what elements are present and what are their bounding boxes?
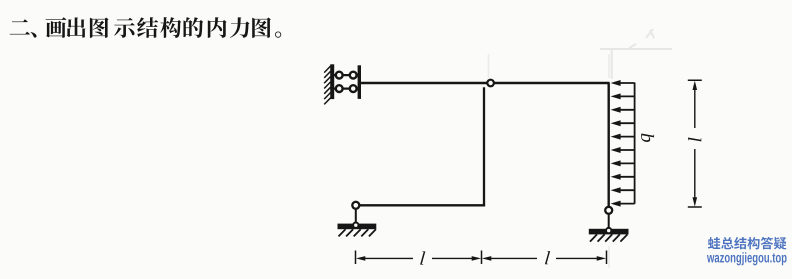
- support: bottom-right link support with hinges: [589, 207, 629, 242]
- distributed load q on right column: [611, 80, 635, 207]
- dimension: right vertical l: [688, 80, 702, 207]
- member: lower beam to left roller support: [356, 204, 485, 206]
- dimension label l (bottom right span): [545, 251, 550, 264]
- dimension: bottom spans l + l: [356, 251, 607, 265]
- dimension label l (right, rotated): [688, 138, 701, 142]
- scan artifacts (faint ghosting): [489, 29, 673, 268]
- member: right column: [608, 83, 610, 207]
- title: 二、画出图示结构的内力图。: [10, 17, 282, 38]
- support: left sliding (double-roller) support: [324, 64, 361, 104]
- dimension label l (bottom left span): [420, 251, 425, 264]
- member: top beam AB: [361, 82, 610, 84]
- load label q (rotated): [641, 134, 654, 142]
- watermark url: wazongjiegou.top: [707, 252, 787, 265]
- member: middle column (hinge to lower beam): [483, 87, 485, 205]
- support: bottom-left link support with hinges: [338, 202, 377, 237]
- hinge at top of middle column: [487, 80, 494, 87]
- watermark: 蛙总结构答疑: [708, 237, 786, 250]
